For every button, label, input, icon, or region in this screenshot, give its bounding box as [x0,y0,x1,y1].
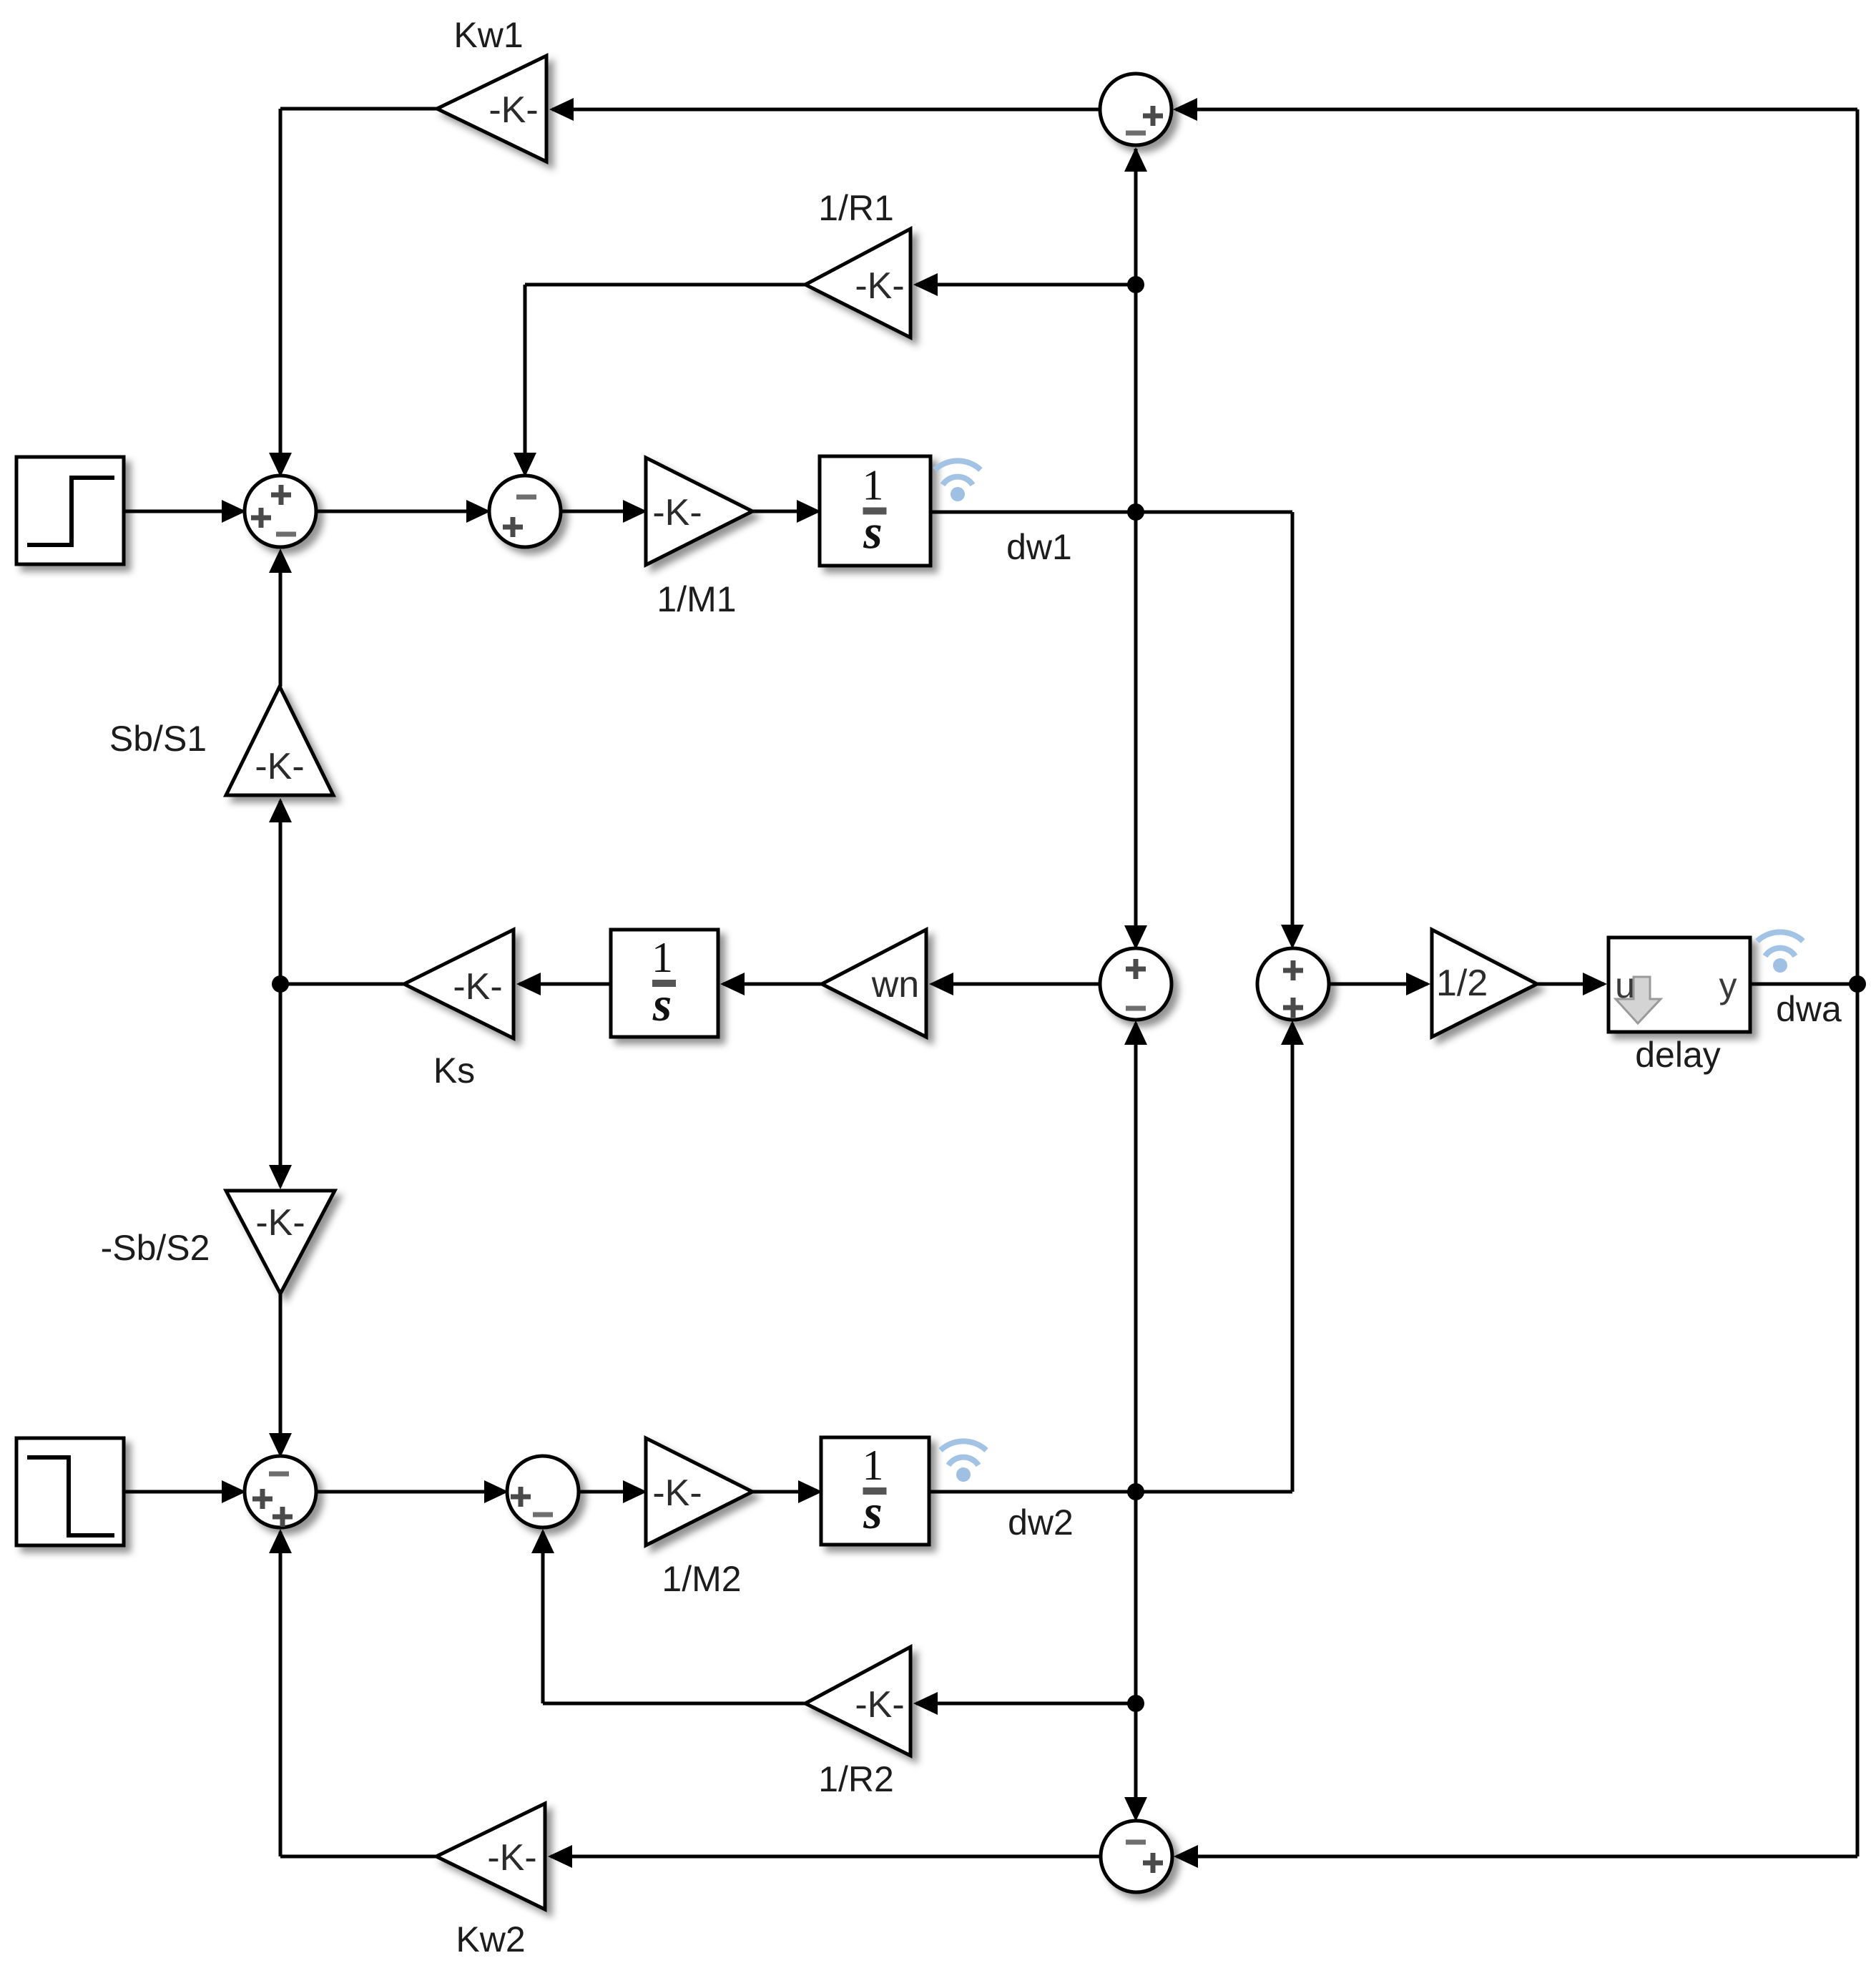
svg-text:-K-: -K- [855,265,904,307]
svg-text:-K-: -K- [855,1684,904,1726]
svg-text:-K-: -K- [488,89,538,131]
svg-text:-K-: -K- [487,1837,536,1879]
svg-text:1/M1: 1/M1 [657,579,736,619]
svg-text:Kw1: Kw1 [453,15,523,55]
svg-text:-K-: -K- [453,966,502,1008]
svg-text:s: s [863,1485,882,1539]
svg-text:-K-: -K- [652,492,702,533]
svg-text:1/2: 1/2 [1436,963,1488,1004]
svg-text:delay: delay [1635,1035,1721,1075]
svg-text:-K-: -K- [652,1472,702,1514]
svg-text:Ks: Ks [433,1051,475,1091]
svg-text:dwa: dwa [1776,989,1842,1029]
svg-text:Kw2: Kw2 [456,1919,525,1959]
svg-text:-K-: -K- [255,746,304,787]
svg-text:y: y [1719,965,1737,1005]
svg-text:Sb/S1: Sb/S1 [109,719,207,759]
svg-text:-K-: -K- [255,1202,305,1244]
svg-text:1: 1 [863,462,884,509]
svg-text:-Sb/S2: -Sb/S2 [101,1228,210,1268]
svg-text:wn: wn [871,964,919,1005]
svg-text:s: s [863,505,882,559]
svg-text:1/R2: 1/R2 [818,1759,894,1799]
svg-text:s: s [652,977,672,1031]
svg-text:dw2: dw2 [1008,1502,1074,1543]
svg-text:1/M2: 1/M2 [662,1559,741,1599]
svg-text:1: 1 [652,934,673,981]
svg-text:1/R1: 1/R1 [818,188,894,228]
svg-text:1: 1 [863,1442,884,1489]
svg-text:dw1: dw1 [1006,527,1072,567]
